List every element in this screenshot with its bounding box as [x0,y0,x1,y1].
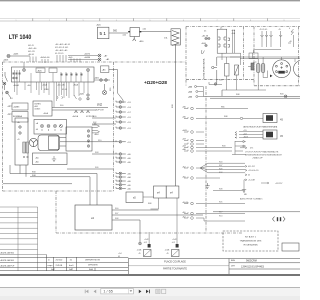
ladder 1 contact X marks [120,101,122,189]
sensor B4 slash box [172,244,180,257]
tiny labels under box A [13,84,79,92]
row 132 [184,131,204,134]
svg-text:+A15: +A15 [182,129,188,132]
resistor R4 pill [261,64,264,73]
svg-text:475: 475 [250,148,253,150]
wires under module [151,198,178,244]
svg-text:AUZILIJA 900: AUZILIJA 900 [1,252,15,255]
btn next page [139,290,142,294]
svg-text:+D2: +D2 [144,242,148,244]
terminal pair X3 [87,94,90,100]
svg-text:m: m [48,260,50,262]
svg-text:405 415: 405 415 [28,51,35,53]
svg-text:405 45: 405 45 [28,45,34,47]
interface labels left of ladder1 [95,104,105,112]
small component K5a [251,63,254,70]
wire S1 to K1 [109,32,128,34]
svg-text:+D4: +D4 [118,253,122,255]
internal wires box A [15,70,89,82]
lower middle dashed region [55,191,57,233]
gauge P3 (right, clipped) [294,60,311,77]
svg-text:+A5B: +A5B [201,42,207,45]
svg-text:MD: MD [244,194,248,196]
spare box right [282,243,299,251]
svg-text:43H43E43H43E43T43T47B43E43B43E: 43H43E43H43E43T43T47B43E43B43E43T [245,155,283,157]
right top dashed box [186,26,300,28]
connector plug XS1 [263,114,283,123]
svg-text:451 452: 451 452 [248,166,255,168]
btn prev page [94,290,97,294]
fuse column F3 F4 F5 [261,31,282,47]
switch S2 left [3,72,7,90]
terminal marks in box A [13,73,83,80]
terminals X5 [205,37,210,46]
svg-text:+A5 45: +A5 45 [28,53,34,56]
svg-text:+A5A: +A5A [43,112,49,115]
junction box A4 below pump [33,153,68,165]
ruler top line [0,18,300,20]
row 966 [184,107,248,110]
svg-text:AUZILIJA 900: AUZILIJA 900 [1,259,15,262]
svg-text:+HA A7L47F: +HA A7L47F [252,157,264,160]
svg-text:AUZILIJA PLF: AUZILIJA PLF [1,265,16,268]
bracket rows right [240,147,269,190]
ruler digits [15,20,285,22]
terminal pair X4 [94,79,110,82]
wires below relay [222,30,241,65]
svg-text:45: 45 [118,256,120,258]
svg-text:+A05: +A05 [68,56,72,59]
svg-text:+D42: +D42 [172,239,177,241]
svg-text:PARTIE TOURNANTE: PARTIE TOURNANTE [163,268,187,271]
svg-text:45: 45 [139,253,141,255]
svg-text:+D4B: +D4B [137,250,143,252]
svg-text:5 1: 5 1 [100,31,107,36]
terminal X8 below [139,242,142,245]
diode arrows on bus [74,110,90,113]
svg-text:SCHALTPLAN NAVIJA: SCHALTPLAN NAVIJA [203,58,206,79]
gauge D+ mark [278,71,285,74]
fan wires to XS2 [235,132,263,139]
svg-text:12940120.EU3F44E3: 12940120.EU3F44E3 [241,266,265,269]
fuse F1 in box A [36,68,45,73]
svg-text:+A5A5: +A5A5 [13,84,20,87]
fuse F6 diagonal [288,29,294,47]
fan-out rows from ladder2 mid [184,163,245,221]
switch S3 [212,57,217,82]
wire from box to ladder drop [109,70,123,104]
svg-text:DHNGEN: DHNGEN [88,264,98,266]
svg-text:+A05 +A5: +A05 +A5 [28,47,36,50]
svg-text:1 / 65: 1 / 65 [103,290,113,294]
big control box a3 [75,205,112,230]
svg-text:+A05: +A05 [3,59,9,62]
svg-text:+D4B: +D4B [165,250,171,252]
svg-text:415 405 41 405: 415 405 41 405 [55,47,68,49]
connector arrows near A2 [92,125,100,133]
svg-text:+A5 4B: +A5 4B [202,35,209,38]
svg-text:+A172: +A172 [84,53,91,56]
svg-text:SAT: SAT [69,268,74,271]
svg-text:+A5 +A05 +A5: +A5 +A05 +A5 [55,49,67,52]
sensor M1 small [102,84,106,95]
svg-text:+A186: +A186 [84,56,91,59]
svg-text:+352297: +352297 [275,183,282,185]
resistor R3 pill [257,64,260,73]
svg-text:+Ω20+Ω28: +Ω20+Ω28 [144,80,167,85]
svg-text:mqm: mqm [48,265,53,267]
arrow marker [270,75,273,78]
svg-text:45 45 45: 45 45 45 [260,29,269,31]
svg-text:JTT2TLPLFLPLPLFTNAUTEATNAL/TB: JTT2TLPLFLPLPLFTNAUTEATNAL/TB [245,151,279,154]
svg-text:KIT A KIT 1: KIT A KIT 1 [245,236,257,239]
svg-text:9605CRM: 9605CRM [246,260,257,263]
row 908 to connector [184,117,263,120]
svg-text:45 45: 45 45 [62,89,68,91]
junction tree right of ladder2 [232,141,246,155]
svg-text:+A05A +A5: +A05A +A5 [40,56,50,59]
svg-text:45: 45 [248,175,250,177]
relay K3 [217,29,229,53]
sheet bottom border [0,274,300,276]
page number field [101,289,134,294]
svg-text:+A5S: +A5S [243,136,249,139]
switch S4 bottom left [201,50,204,54]
svg-text:+A4B3: +A4B3 [13,106,20,109]
svg-text:+A5 +A05 +A5 45: +A5 +A05 +A5 45 [55,43,70,46]
vertical feed wire from R13 [175,45,177,186]
left big dashed box [3,61,187,63]
mid-wire contact symbols under comb [57,95,81,100]
relay K5 under fuses [249,53,258,58]
terminal X1 in box A [23,62,90,72]
terminal X6 [214,83,217,86]
svg-text:+A05: +A05 [37,70,43,73]
a3 output wires [112,210,203,242]
svg-text:2U10B: 2U10B [56,265,63,267]
svg-text:+A5A: +A5A [73,84,79,87]
svg-text:LTF 1040: LTF 1040 [9,34,32,41]
svg-text:+A05A: +A05A [72,115,79,118]
terminal X7 on bus [284,95,287,98]
ruler bottom line [0,20,300,22]
ruler ticks [33,18,267,21]
diode V1 [235,65,239,75]
node X0 terminal top-left [7,54,30,57]
ground GND1 right [242,190,246,193]
svg-text:+A05: +A05 [94,77,100,80]
svg-text:00B03: 00B03 [35,109,42,111]
ground GND2 mid [205,183,209,189]
svg-text:+D42: +D42 [144,239,149,241]
wires to gauges top [282,57,295,62]
svg-text:+A7F1/39: +A7F1/39 [95,109,105,112]
resistor R13 zigzag [171,29,180,46]
svg-text:+D5+D4+D5: +D5+D4+D5 [248,170,259,172]
right wire-label text rows [240,148,283,201]
resistor R2 [225,64,230,77]
valve block A3 with coil terminals [34,120,67,135]
svg-text:20/100: 20/100 [56,260,63,262]
bus wires right of A2 [52,106,108,108]
btn first page [85,290,89,294]
svg-text:JATSUTEJA ITCH-MT HAB2/EKSEVAT: JATSUTEJA ITCH-MT HAB2/EKSEVATA [243,126,278,129]
pump P1: circle + motor [29,135,59,151]
svg-text:BzB: BzB [89,269,94,271]
transformer K1 [130,28,140,42]
gauge P2 (instrument dial) [273,60,291,78]
svg-text:PLACE COUPLAGE: PLACE COUPLAGE [164,260,186,263]
top viewer edge shadow [0,0,300,1]
connector plug XS2 [263,130,283,139]
control unit A2 box [33,101,52,116]
long separator wire y=212 [213,211,300,213]
sensor B3 slash box [144,232,152,257]
rows 140-147 [184,139,232,152]
fuse F2 in box A [49,68,57,73]
svg-text:900: 900 [113,30,118,33]
svg-text:+A546: +A546 [182,201,189,204]
sensor box B2 with terminals right of pump [66,127,92,151]
tick stubs above box A [30,55,80,63]
svg-text:+3+D4E: +3+D4E [248,180,256,182]
double feed line to gauges [230,53,300,59]
relay modules A6 A7 [154,186,179,198]
svg-text:A4E55 PRT5E TLURNAT5: A4E55 PRT5E TLURNAT5 [240,198,262,201]
terminal X2 left [6,91,11,98]
svg-text:SAT: SAT [51,268,56,271]
svg-text:+A45: +A45 [13,53,19,56]
svg-text:+D2: +D2 [172,242,176,244]
btn page-fit icons [156,289,166,293]
coupling symbol [273,217,286,222]
fuse column joins [254,50,281,54]
pump unit B1 box [12,112,28,123]
svg-text:BKH: BKH [231,260,236,262]
long wires into ladder 1 [60,118,116,169]
wire K1 to R13 [141,31,172,33]
svg-text:ROUES(4RM): ROUES(4RM) [244,245,258,247]
tall box with resistors left [15,118,28,165]
svg-text:JEHKRH MOW: JEHKRH MOW [85,260,101,262]
comb of drop wires below box A [15,82,89,107]
box +24V small [101,66,109,73]
svg-text:+A45: +A45 [79,93,85,96]
relay K2 box left column [12,103,28,110]
terminals upper right of box A [68,54,101,61]
svg-text:+A5A: +A5A [42,84,48,87]
svg-text:45: 45 [167,253,169,255]
svg-text:BOMBEA: BOMBEA [13,115,23,118]
left lower feed wires [3,165,97,205]
svg-text:14/39: 14/39 [97,104,103,106]
module a5 [126,192,143,203]
svg-text:TRANSMISSION DES: TRANSMISSION DES [240,240,262,243]
wires in right box mid [209,57,266,90]
svg-text:45 415 45: 45 415 45 [55,53,63,55]
svg-text:bar0: bar0 [69,264,74,267]
btn last page [146,290,150,294]
svg-text:+A5 +A5: +A5 +A5 [57,84,66,87]
